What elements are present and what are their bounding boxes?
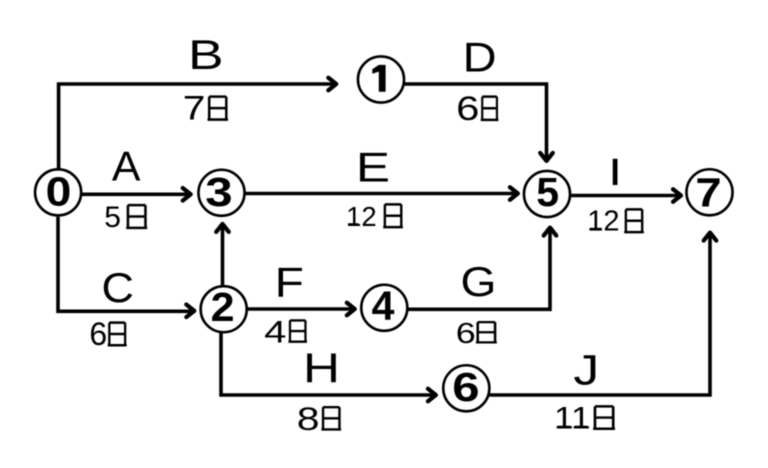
svg-text:F: F [275,258,304,306]
value 6日 for C [89,316,126,352]
wire D elbow 1-to-5 [405,84,547,158]
svg-text:5: 5 [536,169,559,215]
svg-text:J: J [573,346,599,394]
svg-text:0: 0 [46,169,72,215]
arrowhead B [328,78,336,91]
value 12日 for E [346,201,403,232]
label B [188,32,224,78]
node 4 [361,282,407,330]
svg-text:B: B [188,32,224,78]
svg-text:6: 6 [456,91,479,128]
wire F 2-to-4 [247,307,352,311]
svg-text:3: 3 [205,169,232,215]
node 0 [35,169,81,216]
wire E 3-to-5 [245,192,516,196]
node 1 [358,56,404,102]
svg-text:8: 8 [297,401,320,437]
arrowhead H [428,389,436,402]
svg-text:7: 7 [183,89,206,127]
svg-text:12: 12 [346,201,377,232]
wire I 5-to-7 [570,194,679,198]
svg-text:C: C [101,265,133,311]
node 2 [201,284,247,332]
value 8日 for H [297,401,341,437]
value 5日 for A [104,201,147,234]
node 3 [198,169,244,216]
label G [460,259,496,306]
wire A 0-to-3 [81,193,188,197]
wire J elbow 6-to-7 [489,235,710,395]
arrowhead F [347,303,355,316]
svg-text:H: H [303,345,340,392]
svg-text:4: 4 [264,314,286,350]
value 4日 for F [264,314,307,350]
arrowhead D [540,153,553,161]
label A [112,143,141,190]
value 6日 for G [456,316,497,349]
arrowhead A [183,188,191,201]
arrowhead E [510,187,518,200]
arrowhead J [704,233,717,241]
svg-text:I: I [608,150,622,193]
wire H elbow 2-to-6 [221,332,433,395]
arrowhead G [544,228,557,236]
wire C elbow 0-to-2 [58,217,192,312]
svg-text:A: A [112,143,141,190]
svg-text:7: 7 [695,170,721,215]
wire B elbow 0-to-1 [59,84,334,168]
node 5 [524,169,570,217]
svg-text:G: G [460,259,496,306]
label C [101,265,133,311]
svg-text:5: 5 [104,201,121,234]
arrowhead C [186,305,194,318]
node 6 [443,364,489,411]
label E [356,144,390,191]
label D [463,35,497,81]
svg-text:6: 6 [89,316,107,352]
svg-text:E: E [356,144,390,191]
value 6日 for D [456,91,498,128]
svg-text:2: 2 [211,284,235,330]
label J [573,346,599,394]
value 11日 for J [554,401,615,436]
svg-text:6: 6 [452,364,479,410]
arrowhead I [673,189,681,202]
svg-text:6: 6 [456,316,476,349]
wire dummy 2-to-3 vertical [221,227,225,287]
node 7 [686,169,732,215]
value 12日 for I [587,206,644,238]
label F [275,258,304,306]
label H [303,345,340,392]
svg-text:D: D [463,35,497,81]
label I [608,150,622,193]
arrowhead 2-to-3 [216,224,229,232]
svg-text:4: 4 [372,282,395,328]
svg-text:11: 11 [554,401,591,436]
wire G elbow 4-to-5 [407,230,550,309]
value 7日 for B [183,89,228,127]
svg-text:12: 12 [587,206,619,238]
